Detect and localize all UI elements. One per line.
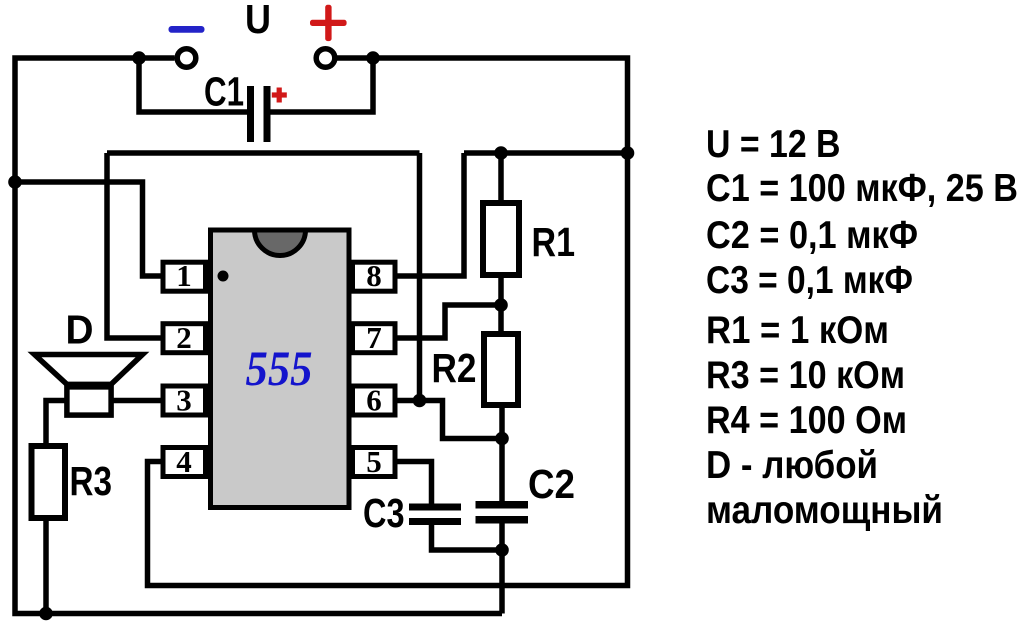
pin 6 [353,383,396,418]
terminal: positive supply post [316,49,335,68]
label: plus polarity [310,5,347,41]
node: R2/C2 junction [495,432,509,446]
svg-text:U: U [245,0,271,42]
node: C2/C3 bottom junction [495,543,509,557]
svg-text:маломощный: маломощный [706,487,943,531]
svg-text:2: 2 [176,320,192,355]
node: R3 ground junction [39,607,53,621]
wire: pin2-pin6 bridge [107,150,420,156]
svg-text:C1: C1 [204,70,244,115]
capacitor C1 [247,86,271,142]
wire: speaker to R3 [46,401,65,446]
svg-text:R3 = 10 кОм: R3 = 10 кОм [706,352,905,396]
svg-text:R2: R2 [432,347,477,392]
wire: speaker to pin 3 [113,398,162,404]
wire: pin 1 to left rail [15,182,162,276]
resistor R3 [32,446,66,518]
wire: top right supply segment [464,150,628,156]
svg-text:6: 6 [366,383,382,418]
wire: R1 bottom to R2 top [498,276,504,333]
svg-text:C2: C2 [528,463,575,508]
svg-text:3: 3 [176,383,192,418]
pin 4 [163,444,206,479]
wire: C1 positive drop [268,58,373,112]
wire: drop to pin 2 [107,153,162,338]
wire: pin 7 to R1/R2 junction [396,305,501,338]
node: minus rail / C1 junction [132,51,146,65]
node: R1/R2 junction [494,298,508,312]
speaker D horn [35,355,143,385]
svg-text:8: 8 [366,258,382,293]
speaker D body [67,387,111,415]
svg-text:C3 = 0,1 мкФ: C3 = 0,1 мкФ [706,257,913,301]
node: pin 6 junction [413,394,427,408]
svg-text:U = 12 В: U = 12 В [706,121,841,165]
pin 3 [163,383,206,418]
resistor R1 [483,203,519,275]
svg-text:4: 4 [176,444,192,479]
pin 5 [353,444,396,479]
resistor R2 [484,334,518,405]
wire: R3 bottom to ground rail [43,519,49,614]
node: plus rail / C1 junction [366,51,380,65]
IC notch [255,230,306,256]
svg-text:C2 = 0,1 мкФ: C2 = 0,1 мкФ [706,212,918,256]
wire: C2 bottom to ground rail [499,521,505,614]
wire: minus terminal to left rail [15,58,502,614]
wire: R2 bottom to C2 top [499,406,505,503]
svg-text:D: D [66,308,94,353]
svg-text:7: 7 [366,320,382,355]
svg-text:1: 1 [176,258,192,293]
capacitor C3 [409,504,461,526]
wire: R1 top lead [498,153,504,202]
pin 1 [163,258,206,293]
IC pin1 marker dot [218,271,229,282]
node: pin1 branch on left rail [8,175,22,189]
svg-text:R4 = 100 Ом: R4 = 100 Ом [706,397,907,441]
wire: drop to pin 6 [417,153,423,401]
capacitor C2 [476,501,529,524]
IC U1: 555 timer body [211,230,350,508]
wire: pin 5 to C3 top [396,462,432,506]
svg-text:C1 = 100 мкФ, 25 В: C1 = 100 мкФ, 25 В [706,165,1018,209]
svg-text:555: 555 [246,340,313,396]
wire: pin 6 to R2 bottom [396,401,502,439]
terminal: negative supply post [177,49,196,68]
pin 7 [353,320,396,355]
wire: pin 8 up to supply [396,153,464,276]
label: minus polarity [169,26,205,33]
wire: C1 negative drop [139,58,249,112]
pin 2 [163,320,206,355]
svg-text:R1 = 1 кОм: R1 = 1 кОм [706,307,889,351]
pin 8 [353,258,396,293]
svg-text:5: 5 [366,444,382,479]
node: supply corner on right rail [621,146,635,160]
svg-text:C3: C3 [363,492,405,537]
svg-text:R1: R1 [532,221,576,266]
node: R1 top supply [494,146,508,160]
label: C1 plus polarity [272,88,287,103]
svg-text:R3: R3 [70,460,113,505]
svg-text:D - любой: D - любой [706,442,878,486]
wire: plus terminal to right rail [148,58,628,586]
wire: C3 bottom to ground junction [432,523,503,550]
